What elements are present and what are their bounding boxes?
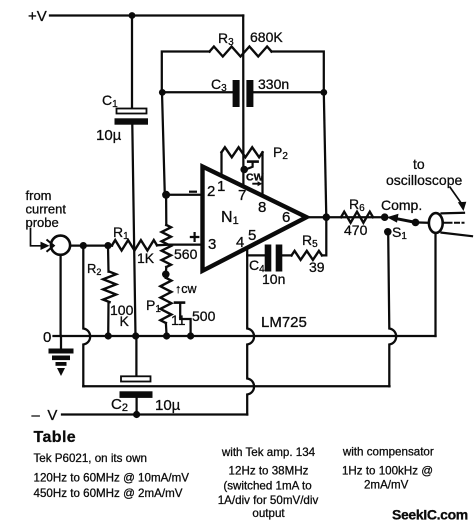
svg-text:7: 7 bbox=[238, 187, 246, 204]
svg-text:10µ: 10µ bbox=[155, 397, 181, 414]
svg-text:2: 2 bbox=[207, 183, 215, 200]
svg-text:LM725: LM725 bbox=[261, 314, 307, 331]
svg-text:680K: 680K bbox=[250, 29, 283, 45]
svg-text:6: 6 bbox=[282, 209, 290, 226]
svg-text:+V: +V bbox=[28, 8, 47, 25]
svg-text:12Hz to 38MHz: 12Hz to 38MHz bbox=[229, 465, 309, 478]
svg-text:10n: 10n bbox=[262, 271, 285, 287]
svg-text:output: output bbox=[252, 507, 285, 520]
svg-text:SeekIC.com: SeekIC.com bbox=[392, 507, 468, 523]
svg-text:– V: – V bbox=[32, 407, 58, 424]
svg-text:1Hz to 100kHz @: 1Hz to 100kHz @ bbox=[342, 465, 433, 478]
svg-text:↑cw: ↑cw bbox=[175, 282, 198, 296]
svg-text:with Tek amp. 134: with Tek amp. 134 bbox=[221, 446, 316, 459]
svg-text:K: K bbox=[120, 313, 130, 329]
svg-text:11: 11 bbox=[171, 312, 186, 328]
svg-text:500: 500 bbox=[192, 308, 216, 324]
svg-text:4: 4 bbox=[236, 234, 244, 251]
svg-text:(switched 1mA to: (switched 1mA to bbox=[223, 480, 311, 493]
svg-text:2mA/mV: 2mA/mV bbox=[364, 479, 409, 492]
svg-text:470: 470 bbox=[344, 222, 368, 238]
svg-text:probe: probe bbox=[26, 215, 59, 230]
svg-text:450Hz to 60MHz @ 2mA/mV: 450Hz to 60MHz @ 2mA/mV bbox=[34, 487, 183, 500]
svg-text:8: 8 bbox=[258, 199, 266, 216]
svg-text:3: 3 bbox=[208, 236, 216, 253]
svg-text:0: 0 bbox=[43, 329, 51, 346]
svg-text:with compensator: with compensator bbox=[342, 446, 434, 459]
svg-text:10µ: 10µ bbox=[96, 127, 122, 144]
svg-text:Comp.: Comp. bbox=[381, 197, 422, 213]
svg-text:39: 39 bbox=[309, 259, 325, 275]
svg-text:oscilloscope: oscilloscope bbox=[386, 172, 462, 188]
svg-text:Table: Table bbox=[34, 429, 77, 446]
svg-text:1A/div for 50mV/div: 1A/div for 50mV/div bbox=[218, 494, 319, 507]
svg-text:1K: 1K bbox=[137, 250, 155, 266]
svg-text:5: 5 bbox=[248, 227, 256, 244]
svg-text:330n: 330n bbox=[258, 76, 289, 92]
svg-text:to: to bbox=[413, 156, 425, 172]
svg-text:1: 1 bbox=[217, 178, 225, 195]
svg-text:560: 560 bbox=[174, 246, 198, 262]
svg-text:120Hz to 60MHz @ 10mA/mV: 120Hz to 60MHz @ 10mA/mV bbox=[34, 472, 190, 485]
svg-text:Tek P6021, on its own: Tek P6021, on its own bbox=[34, 452, 147, 465]
svg-text:CW: CW bbox=[246, 172, 264, 184]
